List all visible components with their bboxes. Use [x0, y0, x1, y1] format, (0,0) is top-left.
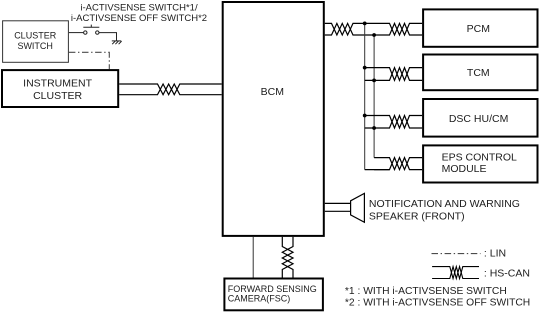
- wire HS-CAN pair: BCM to CAN bus junctions and on to PCM: [325, 23, 365, 35]
- svg-text:CLUSTER: CLUSTER: [33, 90, 82, 102]
- svg-text:EPS CONTROL: EPS CONTROL: [442, 152, 517, 164]
- wire HS-CAN pair: bus to EPS CONTROL MODULE (corner drops): [365, 158, 422, 170]
- wire CAN bus vertical line (right): [373, 35, 375, 158]
- switch SW1 (i-ACTIVSENSE switch contacts): [69, 25, 117, 41]
- wire HS-CAN pair: BCM to forward sensing camera: [282, 237, 293, 278]
- svg-text:: HS-CAN: : HS-CAN: [484, 267, 530, 279]
- svg-text:BCM: BCM: [261, 86, 284, 98]
- svg-text:FORWARD SENSING: FORWARD SENSING: [228, 284, 317, 294]
- svg-text:SWITCH: SWITCH: [17, 41, 53, 51]
- instrument cluster box: [2, 70, 118, 107]
- junction dot: TCM branch, CAN-H bus: [363, 66, 367, 70]
- junction dot: PCM branch, CAN-L bus: [372, 33, 376, 37]
- svg-text:*2 : WITH i-ACTIVSENSE OFF SWI: *2 : WITH i-ACTIVSENSE OFF SWITCH: [345, 298, 530, 309]
- svg-text:MODULE: MODULE: [442, 163, 487, 175]
- svg-text:CLUSTER: CLUSTER: [14, 31, 57, 41]
- speaker symbol (horn): [351, 193, 365, 222]
- svg-text:i-ACTIVSENSE SWITCH*1/: i-ACTIVSENSE SWITCH*1/: [80, 2, 198, 13]
- wire: BCM to forward sensing camera (plain): [252, 237, 254, 278]
- legend HS-CAN twisted pair sample: [432, 267, 479, 279]
- wire HS-CAN pair: instrument cluster to BCM: [119, 84, 222, 95]
- wire HS-CAN pair: bus junctions to PCM: [365, 23, 422, 35]
- PCM box: [423, 9, 537, 46]
- legend LIN line sample: [432, 253, 481, 255]
- EPS control module box: [423, 145, 537, 182]
- junction dot: DSC branch, CAN-H bus: [363, 114, 367, 118]
- svg-text:: LIN: : LIN: [484, 248, 506, 260]
- node label i-ACTIVSENSE SWITCH*1/ i-ACTIVSENSE OFF SWITCH*2: [71, 2, 207, 24]
- wire HS-CAN pair: bus to TCM: [365, 68, 422, 81]
- svg-text:*1 : WITH i-ACTIVSENSE SWITCH: *1 : WITH i-ACTIVSENSE SWITCH: [345, 286, 507, 297]
- ground (chassis): [112, 41, 122, 44]
- BCM box U1: [223, 2, 324, 236]
- DSC HU/CM box: [423, 99, 537, 137]
- svg-text:NOTIFICATION AND WARNING: NOTIFICATION AND WARNING: [369, 198, 520, 210]
- forward sensing camera box: [224, 279, 323, 311]
- cluster switch box: [3, 21, 69, 63]
- wire pair: BCM to speaker: [325, 203, 351, 211]
- svg-text:CAMERA(FSC): CAMERA(FSC): [228, 294, 291, 304]
- wire CAN bus vertical line (left): [364, 23, 366, 169]
- junction dot: PCM branch, CAN-H bus: [363, 22, 367, 26]
- wire HS-CAN pair: bus to DSC HU/CM: [365, 116, 422, 129]
- svg-text:INSTRUMENT: INSTRUMENT: [23, 78, 92, 90]
- svg-text:i-ACTIVSENSE OFF SWITCH*2: i-ACTIVSENSE OFF SWITCH*2: [71, 13, 207, 24]
- svg-text:PCM: PCM: [467, 23, 490, 35]
- svg-text:DSC HU/CM: DSC HU/CM: [449, 113, 509, 125]
- junction dot: TCM branch, CAN-L bus: [372, 79, 376, 83]
- svg-text:TCM: TCM: [467, 67, 490, 79]
- wire LIN (dash-dot) cluster switch to instrument cluster: [69, 52, 109, 69]
- node label notification and warning speaker (front): [369, 198, 520, 223]
- junction dot: DSC branch, CAN-L bus: [372, 126, 376, 130]
- TCM box: [423, 55, 537, 91]
- svg-text:SPEAKER (FRONT): SPEAKER (FRONT): [369, 211, 465, 223]
